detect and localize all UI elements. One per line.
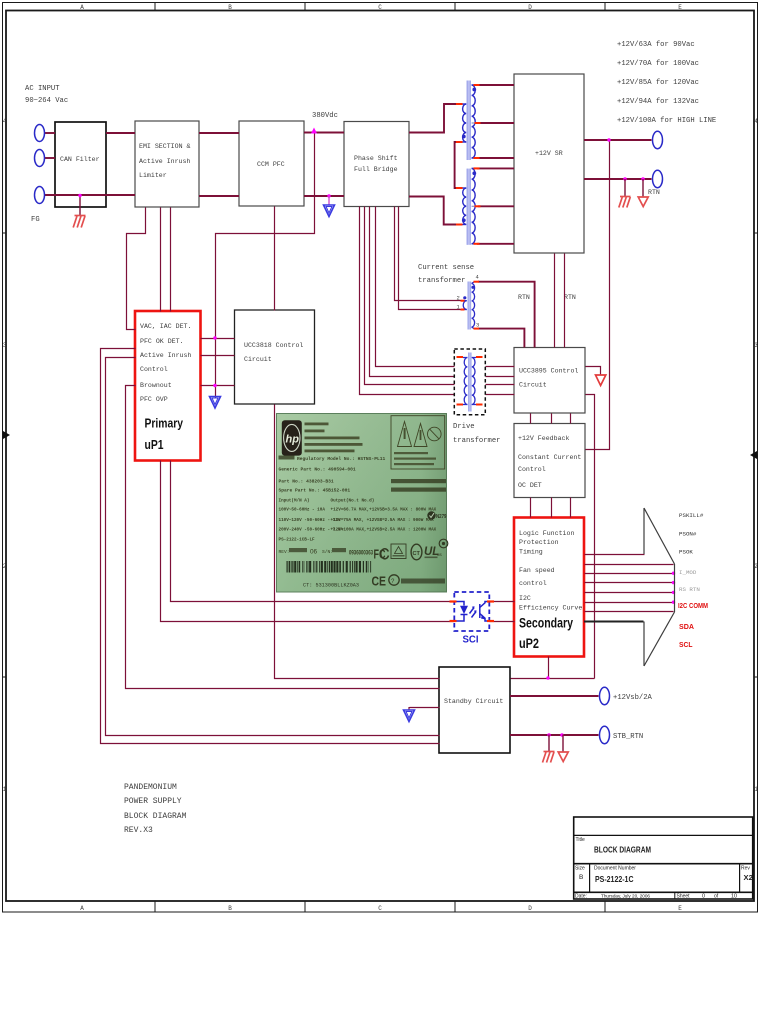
wire: Phase Shift bridge drive 3 — [370, 207, 455, 377]
svg-text:B: B — [228, 4, 232, 11]
wire: standby right to UCC3895 net — [511, 678, 595, 680]
svg-text:X2: X2 — [744, 873, 753, 882]
svg-text:Part No.: 438203-B31: Part No.: 438203-B31 — [279, 479, 334, 485]
svg-text:uP2: uP2 — [519, 636, 539, 651]
wire: AC line N to CAN Filter — [45, 157, 55, 159]
svg-text:Timing: Timing — [519, 549, 543, 556]
svg-text:I_MOD: I_MOD — [679, 569, 697, 576]
svg-text:Input(M/N A): Input(M/N A) — [279, 499, 310, 504]
svg-text:Circuit: Circuit — [244, 356, 272, 363]
svg-text:RTN: RTN — [518, 294, 530, 301]
wire: EMI to CCM PFC bottom — [199, 195, 239, 197]
svg-text:Active Inrush: Active Inrush — [139, 158, 190, 165]
svg-text:1: 1 — [3, 786, 7, 793]
port: +12V output circle — [653, 131, 663, 148]
wire: standby ground stub — [410, 707, 440, 709]
ground: blue triangle below 380V return — [324, 196, 335, 217]
svg-text:Brownout: Brownout — [140, 382, 172, 389]
svg-text:3: 3 — [3, 342, 7, 349]
svg-text:Document Number: Document Number — [594, 866, 636, 872]
wire: CCM PFC bottom to UCC3818 top — [274, 207, 276, 311]
svg-text:Regulatory Model No.: HSTNS-PL: Regulatory Model No.: HSTNS-PL11 — [297, 456, 385, 462]
wire: uP1 bottom to SCI upper — [171, 461, 455, 602]
wire: Phase Shift to current sense pin 2 — [395, 207, 462, 301]
note: Drive transformer label — [453, 423, 500, 445]
ground: chassis at CAN filter FG — [73, 194, 85, 228]
wire: UCC3895 right down to standby net — [586, 395, 595, 679]
svg-text:RTN: RTN — [564, 294, 576, 301]
block: Standby Circuit — [439, 667, 510, 753]
svg-text:3: 3 — [476, 322, 479, 329]
svg-text:+12V/85A for 120Vac: +12V/85A for 120Vac — [617, 79, 699, 87]
svg-text:Efficiency Curve: Efficiency Curve — [519, 605, 582, 612]
svg-text:+12Vsb/2A: +12Vsb/2A — [613, 694, 653, 702]
svg-text:PFC OK DET.: PFC OK DET. — [140, 338, 184, 345]
ground: blue triangle below UCC3818 row — [210, 397, 221, 409]
wire: feedback bottom to uP2 top pins — [530, 498, 532, 518]
svg-text:Fan speed: Fan speed — [519, 567, 555, 574]
note: Current sense transformer label — [418, 264, 474, 285]
transformer: current sense — [457, 274, 480, 330]
wire: uP2 bottom to standby net — [548, 657, 550, 679]
svg-text:90~264 Vac: 90~264 Vac — [25, 97, 68, 105]
svg-text:CAN Filter: CAN Filter — [60, 156, 100, 163]
svg-text:E: E — [678, 905, 682, 912]
svg-text:Logic Function: Logic Function — [519, 530, 574, 537]
node: 380Vdc net arrow — [311, 128, 317, 134]
block: Primary uP1 — [135, 311, 201, 461]
wire: drive transformer to UCC3895 4 — [486, 394, 515, 396]
title block — [574, 817, 753, 899]
svg-text:Secondary: Secondary — [519, 616, 573, 631]
svg-text:CT: CT — [413, 551, 421, 557]
svg-text:Sheet: Sheet — [677, 894, 691, 900]
warning icons box — [391, 416, 445, 469]
svg-text:uP1: uP1 — [145, 437, 164, 452]
svg-text:UCC3818 Control: UCC3818 Control — [244, 342, 303, 349]
svg-text:0: 0 — [702, 894, 705, 900]
wire: uP1 to UCC3818 row2 — [201, 355, 235, 357]
svg-text:N279: N279 — [436, 514, 447, 520]
wire: T2 secondary pins to +12V SR — [477, 167, 514, 169]
note: AC INPUT label — [25, 85, 68, 105]
wire: uP1 to UCC3818 row1 — [201, 338, 235, 340]
svg-text:+12V/70A for 100Vac: +12V/70A for 100Vac — [617, 60, 699, 68]
block: EMI SECTION & Active Inrush Limiter — [135, 121, 199, 207]
svg-text:Rev: Rev — [741, 866, 750, 872]
wire: Phase Shift bridge drive 4 — [376, 207, 455, 367]
wire: black bus PSOK — [584, 621, 644, 623]
svg-text:06: 06 — [310, 549, 318, 556]
port: AC input circles — [35, 125, 663, 744]
svg-text:2: 2 — [3, 563, 7, 570]
svg-text:B: B — [228, 905, 232, 912]
svg-text:I2C COMM: I2C COMM — [678, 601, 708, 610]
svg-text:Date:: Date: — [575, 894, 587, 900]
svg-text:A: A — [80, 4, 84, 11]
wire: uP1 left to standby long run 2 — [106, 358, 440, 736]
svg-text:+12V Feedback: +12V Feedback — [518, 435, 569, 442]
svg-text:0936000363: 0936000363 — [349, 550, 373, 557]
svg-text:Constant Current: Constant Current — [518, 454, 581, 461]
svg-text:PFC OVP: PFC OVP — [140, 396, 168, 403]
svg-text:STB_RTN: STB_RTN — [613, 733, 643, 741]
wire: T1 primary bottom to T2 primary top — [455, 142, 457, 188]
svg-text:transformer: transformer — [453, 437, 500, 445]
wire: UCC3895 right to ground stub — [586, 367, 601, 375]
svg-text:Control: Control — [140, 366, 168, 373]
wire: Phase Shift to T2 primary bottom — [409, 197, 457, 225]
svg-text:100V~50-60Hz - 10A: 100V~50-60Hz - 10A — [279, 508, 326, 513]
block: +12V SR — [514, 74, 584, 253]
svg-text:CE: CE — [372, 574, 387, 589]
svg-text:Drive: Drive — [453, 423, 475, 431]
wire: +12V sense down to feedback — [586, 141, 610, 450]
svg-text:FG: FG — [31, 216, 40, 224]
svg-text:BLOCK DIAGRAM: BLOCK DIAGRAM — [124, 812, 187, 821]
svg-text:E: E — [678, 4, 682, 11]
svg-text:2: 2 — [754, 563, 758, 570]
block: +12V Feedback Constant Current Control OC DET — [514, 424, 585, 498]
svg-text:CT: 531300BLLKZ0A3: CT: 531300BLLKZ0A3 — [303, 583, 359, 589]
port: RTN output circle — [653, 170, 663, 187]
port: +12Vsb output circle — [600, 687, 610, 704]
note: output ratings list — [617, 41, 716, 125]
ground: red open triangle at STB_RTN — [558, 735, 568, 762]
svg-text:4: 4 — [3, 118, 7, 125]
wire: CCM PFC to Phase Shift 380Vdc — [304, 132, 344, 134]
wire: drive transformer to UCC3895 2 — [486, 376, 515, 378]
wire: current sense transformer pin4 RTN — [478, 282, 535, 348]
block: UCC3818 Control Circuit — [235, 310, 315, 404]
svg-text:10: 10 — [731, 894, 737, 900]
HP product label photo (green) — [277, 414, 448, 593]
wire: current sense transformer pin3 — [478, 329, 524, 348]
wire: AC line L to CAN Filter — [45, 85, 652, 735]
svg-text:REV:: REV: — [279, 549, 290, 555]
svg-text:380Vdc: 380Vdc — [312, 112, 338, 120]
wire: drive transformer to UCC3895 3 — [486, 384, 515, 386]
svg-text:SCI: SCI — [463, 635, 479, 646]
svg-text:PSKILL#: PSKILL# — [679, 512, 704, 519]
wire: drive transformer to UCC3895 1 — [486, 366, 515, 368]
svg-text:PSOK: PSOK — [679, 549, 693, 556]
svg-text:BLOCK DIAGRAM: BLOCK DIAGRAM — [594, 845, 651, 855]
wire: UCC3895 bottom to feedback top pins — [530, 414, 532, 424]
svg-text:Output(No.t No.d): Output(No.t No.d) — [331, 499, 375, 504]
wire: uP2 top signal to connector — [585, 554, 645, 556]
signal labels — [679, 512, 704, 593]
svg-text:Title: Title — [576, 837, 585, 843]
svg-text:us: us — [437, 552, 443, 557]
note: PANDEMONIUM POWER SUPPLY BLOCK DIAGRAM REV.X3 — [124, 783, 187, 835]
svg-text:PS-2122-1CB-LF: PS-2122-1CB-LF — [279, 538, 316, 543]
svg-text:Phase Shift: Phase Shift — [354, 155, 398, 162]
wire: Phase Shift to current sense pin 1 — [399, 207, 462, 310]
svg-text:POWER SUPPLY: POWER SUPPLY — [124, 797, 182, 806]
svg-text:AC INPUT: AC INPUT — [25, 85, 60, 93]
svg-text:+12V=66.7A MAX,+12VSB=3.5A MAX: +12V=66.7A MAX,+12VSB=3.5A MAX : 800W MA… — [331, 508, 437, 513]
block: CAN Filter — [55, 122, 106, 207]
svg-text:Standby Circuit: Standby Circuit — [444, 698, 503, 705]
wire: Phase Shift bridge drive 2 — [365, 207, 455, 385]
optocoupler SCI — [450, 592, 495, 646]
svg-text:3: 3 — [754, 342, 758, 349]
label header text lines — [305, 423, 363, 453]
svg-text:+12V/100A for HIGH LINE: +12V/100A for HIGH LINE — [617, 117, 716, 125]
svg-text:Limiter: Limiter — [139, 172, 167, 179]
wire: +12V SR +12V output — [584, 139, 652, 141]
center mark arrow right — [750, 451, 757, 459]
wire: Phase Shift bridge drive 1 — [360, 207, 455, 395]
svg-text:S/N:: S/N: — [322, 549, 333, 555]
ground: blue triangle at standby left — [404, 707, 415, 722]
svg-text:B: B — [579, 874, 583, 881]
svg-text:Primary: Primary — [145, 416, 184, 431]
wire: T1 secondary pins to +12V SR — [477, 84, 514, 86]
wire: CCM PFC to Phase Shift return — [304, 195, 344, 197]
transformer T1 main top — [456, 81, 481, 161]
zone letters top — [80, 4, 682, 11]
svg-text:+12V/63A for 90Vac: +12V/63A for 90Vac — [617, 41, 695, 49]
label part number rows — [279, 456, 386, 494]
wire: UCC3818 bottom down to standby — [275, 405, 440, 679]
wire: EMI bottom to uP1 VAC sense — [127, 208, 146, 330]
transformer: drive (dashed box) — [454, 349, 485, 415]
svg-text:1: 1 — [754, 786, 758, 793]
wire: SCI right to uP2 — [490, 601, 515, 603]
svg-text:Control: Control — [518, 466, 546, 473]
svg-text:EMI SECTION &: EMI SECTION & — [139, 143, 190, 150]
svg-text:Current sense: Current sense — [418, 264, 474, 272]
zone numbers left — [3, 118, 7, 793]
svg-text:PSON#: PSON# — [679, 531, 697, 538]
wire: EMI bottom to uP1 top pins — [160, 208, 162, 312]
ground: chassis at RTN output — [619, 179, 631, 208]
svg-text:+12V SR: +12V SR — [535, 150, 563, 157]
block: Phase Shift Full Bridge — [344, 122, 409, 207]
wire: uP1 left to standby long run 1 — [101, 349, 440, 744]
svg-text:REV.X3: REV.X3 — [124, 826, 153, 835]
svg-text:PANDEMONIUM: PANDEMONIUM — [124, 783, 177, 792]
svg-text:Spare Part No.: 45B152-001: Spare Part No.: 45B152-001 — [279, 488, 351, 494]
svg-text:of: of — [714, 894, 719, 900]
svg-text:D: D — [528, 905, 532, 912]
block: UCC3895 Control Circuit — [514, 348, 585, 414]
svg-text:I2C: I2C — [519, 595, 531, 602]
svg-text:PS-2122-1C: PS-2122-1C — [595, 874, 634, 884]
wire: FG line through CAN Filter to EMI — [45, 194, 135, 196]
svg-text:+12V/94A for 132Vac: +12V/94A for 132Vac — [617, 98, 699, 106]
zone letters bottom — [80, 905, 682, 912]
label ratings table — [279, 499, 437, 543]
svg-text:VAC, IAC DET.: VAC, IAC DET. — [140, 323, 191, 330]
wire: uP1 left to standby long run 3 — [126, 386, 440, 689]
svg-text:4: 4 — [754, 118, 758, 125]
svg-text:SCL: SCL — [679, 640, 693, 649]
wire: standby +12Vsb output — [510, 695, 599, 697]
svg-text:RS RTN: RS RTN — [679, 586, 700, 593]
svg-text:Thursday, July 20, 2006: Thursday, July 20, 2006 — [601, 894, 650, 900]
ground: red open triangle at UCC3895 — [596, 375, 606, 386]
svg-text:CCM PFC: CCM PFC — [257, 161, 285, 168]
wire: standby STB_RTN output — [510, 734, 599, 736]
svg-text:2: 2 — [457, 295, 460, 302]
svg-text:C: C — [378, 905, 382, 912]
svg-text:Size: Size — [575, 866, 585, 872]
svg-text:+12V=75A MAX, +12VSB=2.5A MAX: +12V=75A MAX, +12VSB=2.5A MAX : 900W MAX — [331, 518, 435, 523]
svg-text:Active Inrush: Active Inrush — [140, 352, 191, 359]
zone numbers right — [754, 118, 758, 793]
block: CCM PFC — [239, 121, 304, 206]
svg-text:Circuit: Circuit — [519, 382, 547, 389]
HP logo — [282, 420, 302, 455]
svg-text:+12V=100A MAX,+12VSB=2.5A MAX: +12V=100A MAX,+12VSB=2.5A MAX : 1200W MA… — [331, 528, 437, 533]
wire: uP2 signal bundle — [585, 564, 674, 566]
wire: 380Vdc tap down to UCC3818 area — [216, 134, 315, 398]
wire: +12V SR RTN output — [584, 178, 652, 180]
svg-text:OC DET: OC DET — [518, 482, 542, 489]
svg-text:RTN: RTN — [648, 189, 660, 196]
svg-text:hp: hp — [286, 434, 300, 446]
wire: uP1 bottom to SCI lower — [161, 461, 455, 622]
wire: SR bottom RTN to UCC3895 — [554, 254, 556, 348]
transformer T2 main bottom — [456, 168, 481, 244]
svg-text:control: control — [519, 580, 547, 587]
svg-text:D: D — [528, 4, 532, 11]
connector arrow outline — [644, 508, 675, 666]
barcode — [287, 561, 372, 573]
block: Secondary uP2 — [514, 518, 584, 657]
svg-text:Protection: Protection — [519, 539, 559, 546]
ground: red open triangle at RTN output — [638, 179, 648, 207]
center mark arrow left — [3, 431, 10, 439]
port: STB_RTN output circle — [600, 726, 610, 743]
svg-text:C: C — [378, 4, 382, 11]
svg-text:Full Bridge: Full Bridge — [354, 166, 398, 173]
svg-text:SDA: SDA — [679, 622, 694, 631]
ground: chassis at STB_RTN — [543, 735, 555, 763]
svg-text:Generic Part No.: 490594-001: Generic Part No.: 490594-001 — [279, 467, 356, 473]
svg-text:transformer: transformer — [418, 277, 465, 285]
svg-text:UCC3895 Control: UCC3895 Control — [519, 368, 578, 375]
wire: uP1 to UCC3818 row3 — [201, 385, 235, 387]
wire: Phase Shift to T1 primary top — [409, 104, 457, 133]
wire: EMI to CCM PFC top — [199, 132, 239, 134]
svg-text:A: A — [80, 905, 84, 912]
